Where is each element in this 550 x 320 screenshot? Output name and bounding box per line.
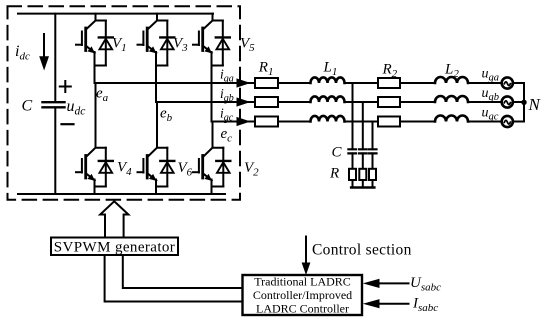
wire SVPWM to controller lower: [105, 255, 243, 302]
wire L2b to source b: [468, 101, 502, 103]
transistor V1 (IGBT top leg a): [76, 14, 106, 83]
wire L1b to R2b: [345, 101, 379, 103]
wire R to common link a: [352, 180, 354, 188]
diode of V4: [95, 148, 113, 187]
resistor R2 phase c: [378, 117, 400, 127]
svg-text:idc: idc: [15, 43, 30, 63]
svg-text:V6: V6: [178, 160, 193, 179]
AC source u_gc: [502, 116, 513, 127]
arrow I_sabc: [379, 303, 409, 305]
svg-text:Usabc: Usabc: [410, 275, 441, 294]
wire R2b to L2b: [400, 101, 435, 103]
arrow i_gb: [237, 97, 251, 106]
svg-text:uga: uga: [482, 67, 500, 84]
arrow i_gc: [237, 117, 251, 126]
svg-text:Traditional LADRC: Traditional LADRC: [254, 275, 351, 289]
svg-text:LADRC Controller: LADRC Controller: [256, 302, 349, 316]
inductor L1 phase a: [311, 77, 345, 83]
svg-text:C: C: [332, 145, 343, 161]
box LADRC controller: [243, 275, 363, 315]
inverter dashed box: [8, 6, 241, 200]
inductor L2 phase c: [435, 116, 468, 122]
svg-text:V1: V1: [112, 36, 127, 55]
resistor R shunt b: [359, 169, 366, 180]
svg-text:ugb: ugb: [482, 86, 500, 103]
capacitor C shunt c: [369, 149, 377, 153]
wire DC-link vertical: [54, 14, 56, 194]
resistor R shunt a: [349, 169, 356, 180]
wire R1a to L1a: [278, 82, 311, 84]
wire cap to R shunt b: [362, 153, 364, 168]
wire L2a to source a: [468, 82, 502, 84]
AC source u_gb: [502, 96, 513, 107]
svg-text:L2: L2: [444, 62, 459, 81]
wire R1c to L1c: [278, 121, 311, 123]
block arrow SVPWM to inverter: [100, 201, 128, 237]
inductor L1 phase b: [311, 96, 345, 102]
wire shunt drop phase c: [372, 122, 374, 150]
wire cap to R shunt a: [352, 153, 354, 168]
capacitor C shunt b: [359, 149, 367, 153]
diode of V3: [156, 21, 174, 66]
wire SVPWM to controller upper: [123, 255, 243, 288]
svg-text:iga: iga: [220, 67, 234, 85]
svg-text:ec: ec: [221, 126, 233, 145]
svg-text:udc: udc: [67, 98, 86, 118]
wire cap to R shunt c: [372, 153, 374, 168]
svg-text:V5: V5: [240, 36, 255, 55]
transistor V6 (IGBT bottom leg b): [138, 102, 168, 194]
svg-text:C: C: [22, 98, 33, 115]
wire R to common link b: [362, 180, 364, 188]
wire R2a to L2a: [400, 82, 435, 84]
svg-text:ugc: ugc: [482, 106, 499, 123]
wire R2c to L2c: [400, 121, 435, 123]
svg-text:SVPWM generator: SVPWM generator: [54, 240, 175, 256]
wire phase c output: [212, 121, 256, 123]
arrow control section: [305, 237, 307, 264]
arrow U_sabc: [379, 282, 409, 284]
inductor L2 phase b: [435, 96, 468, 102]
svg-text:Controller/Improved: Controller/Improved: [253, 288, 352, 302]
svg-text:Control section: Control section: [312, 242, 412, 259]
svg-text:R: R: [329, 166, 339, 182]
resistor R2 phase b: [378, 97, 400, 107]
resistor R1 phase a: [255, 78, 278, 88]
wire L1c to R2c: [345, 121, 379, 123]
node N: [521, 100, 526, 105]
diode of V1: [95, 21, 113, 66]
wire neutral bus: [523, 83, 525, 122]
arrow i_ga: [237, 78, 251, 87]
svg-text:V2: V2: [244, 160, 259, 179]
wire source a to N bus: [513, 82, 524, 84]
wire shunt common link: [351, 186, 374, 189]
resistor R shunt c: [369, 169, 376, 180]
symbol minus (u_dc): [62, 123, 74, 125]
wire bottom DC bus: [18, 193, 225, 195]
svg-text:R1: R1: [258, 60, 274, 79]
capacitor C shunt a: [348, 149, 356, 153]
resistor R1 phase c: [255, 117, 278, 127]
svg-text:Isabc: Isabc: [412, 296, 438, 315]
wire phase b output: [156, 101, 255, 103]
transistor V4 (IGBT bottom leg a): [76, 83, 106, 194]
svg-text:ea: ea: [96, 86, 109, 105]
wire source c to N bus: [513, 121, 524, 123]
inductor L2 phase a: [435, 77, 468, 83]
svg-text:N: N: [528, 95, 542, 114]
svg-text:V4: V4: [117, 160, 132, 179]
AC source u_ga: [502, 77, 513, 88]
diode of V2: [212, 148, 231, 187]
resistor R1 phase b: [255, 97, 278, 107]
wire top DC bus: [18, 13, 213, 15]
transistor V3 (IGBT top leg b): [138, 14, 168, 102]
wire L1a to R2a: [345, 82, 379, 84]
capacitor C (DC link): [43, 102, 65, 107]
diode of V6: [156, 148, 174, 187]
svg-text:eb: eb: [160, 106, 173, 125]
wire L2c to source c: [468, 121, 502, 123]
resistor R2 phase a: [378, 78, 400, 88]
inductor L1 phase c: [311, 116, 345, 122]
wire phase a output: [95, 82, 256, 84]
diode of V5: [212, 21, 230, 66]
symbol plus (u_dc): [60, 81, 71, 92]
arrow i_dc: [43, 34, 45, 58]
wire source b to N bus: [513, 101, 524, 103]
wire R1b to L1b: [278, 101, 311, 103]
wire shunt drop phase b: [362, 102, 364, 149]
box SVPWM generator: [51, 238, 178, 256]
svg-text:R2: R2: [382, 62, 398, 81]
wire shunt drop phase a: [352, 83, 354, 149]
wire R to common link c: [372, 180, 374, 188]
svg-text:L1: L1: [323, 60, 338, 79]
transistor V5 (IGBT top leg c): [193, 14, 223, 122]
svg-text:V3: V3: [173, 36, 188, 55]
transistor V2 (IGBT bottom leg c): [193, 122, 223, 195]
